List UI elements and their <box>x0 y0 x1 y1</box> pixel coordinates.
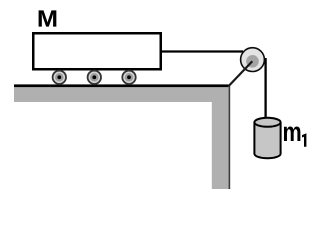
pulley hub <box>246 55 259 68</box>
mass m1 (cylinder) <box>254 118 280 159</box>
label m1 (letter m) <box>284 126 300 141</box>
table surface line <box>14 84 229 87</box>
pulley bracket <box>229 61 253 86</box>
table (gray L-shaped slab) <box>14 87 230 189</box>
string vertical (pulley to mass m1) <box>264 58 266 121</box>
pulley <box>229 48 265 86</box>
table right edge line <box>229 86 231 189</box>
label M <box>39 10 57 26</box>
label m1 (subscript 1) <box>302 133 306 147</box>
wheel 3 <box>122 71 135 84</box>
wheel 1 <box>53 71 66 84</box>
cart M (body) <box>33 33 161 69</box>
string horizontal (cart to pulley) <box>159 50 243 52</box>
wheel 2 <box>88 71 101 84</box>
